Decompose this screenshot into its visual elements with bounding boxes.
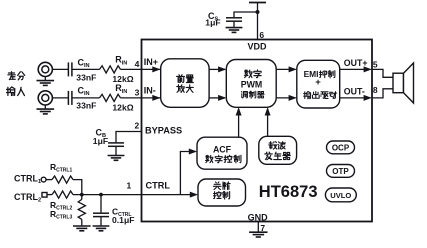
resistor R_IN row 2 [100, 94, 121, 101]
wire CTRL2 to R_CTRL2 [47, 194, 52, 196]
junction node R_CTRL3 [80, 193, 84, 197]
speaker LS1 [393, 63, 414, 103]
svg-text:1μF: 1μF [93, 136, 108, 146]
wire R_CTRL1 down to node [73, 180, 82, 195]
wire C_IN to R_IN row 1 [72, 68, 100, 70]
wire C_IN to R_IN row 2 [72, 97, 100, 99]
ground at pin 7 [249, 232, 267, 237]
svg-text:CTRL1: CTRL1 [14, 173, 41, 185]
svg-text:1: 1 [127, 180, 132, 190]
svg-text:0.1μF: 0.1μF [112, 215, 134, 225]
input jack J1 [38, 62, 52, 80]
wire J1 to C_IN [52, 68, 68, 70]
block 关断控制 shutdown control [198, 179, 246, 206]
block 数字PWM调制器 digital PWM modulator [226, 60, 276, 108]
capacitor C_CTRL [100, 195, 102, 213]
ground at jack J1 [37, 81, 55, 86]
capacitor C_S [226, 18, 242, 21]
svg-text:OTP: OTP [332, 167, 349, 176]
svg-text:BYPASS: BYPASS [145, 126, 182, 136]
svg-text:4: 4 [135, 59, 140, 69]
svg-text:12kΩ: 12kΩ [112, 102, 133, 112]
label 差分输入 differential input [7, 72, 25, 96]
IC block U1 HT6873 outline [142, 40, 373, 222]
wire R_IN to pin 3 and into preamp [121, 97, 161, 99]
wire CTRL1 to R_CTRL1 [46, 179, 52, 181]
block OTP [327, 165, 355, 178]
svg-text:IN+: IN+ [144, 57, 158, 67]
svg-text:2: 2 [135, 120, 140, 130]
svg-text:33nF: 33nF [76, 101, 96, 111]
junction node on VDD wire [256, 10, 260, 14]
wire OUT- to speaker [372, 89, 393, 98]
resistor R_CTRL2 [52, 191, 73, 198]
svg-text:OUT-: OUT- [344, 87, 365, 97]
resistor R_IN row 1 [100, 66, 121, 73]
svg-text:CTRL2: CTRL2 [14, 192, 41, 204]
ground at C_CTRL [93, 226, 110, 231]
block ACF数字控制 ACF digital control [197, 137, 247, 169]
wire J2 to C_IN [52, 97, 68, 99]
svg-text:ACF: ACF [213, 144, 232, 154]
svg-text:33nF: 33nF [76, 72, 96, 82]
block UVLO [325, 188, 356, 202]
wire ACF to PWM [238, 109, 240, 138]
wire PWM to EMI (top) [276, 68, 295, 70]
svg-text:OCP: OCP [332, 143, 350, 152]
svg-text:PWM: PWM [241, 79, 263, 89]
svg-text:+: + [315, 77, 321, 88]
svg-text:HT6873: HT6873 [259, 183, 318, 201]
block 载波发生器 carrier generator [259, 136, 297, 164]
ground at jack J2 [37, 109, 55, 114]
wire CTRL branch to ACF [180, 152, 195, 195]
wire preamp to PWM (bottom) [209, 97, 225, 99]
capacitor C_IN row 2 [68, 91, 72, 105]
resistor R_CTRL3 (to ground) [81, 195, 83, 200]
svg-text:OUT+: OUT+ [344, 58, 368, 68]
wire OUT+ to speaker [372, 69, 393, 77]
block OCP [327, 141, 355, 154]
wire carrier generator to PWM [267, 109, 269, 137]
svg-text:6: 6 [259, 30, 264, 40]
junction node C_CTRL [99, 193, 103, 197]
svg-text:CTRL: CTRL [146, 181, 171, 191]
svg-text:IN-: IN- [144, 86, 156, 96]
svg-text:GND: GND [248, 212, 269, 222]
block 前置放大 preamp [161, 59, 209, 108]
resistor R_CTRL1 [52, 176, 73, 183]
VDD supply rail bar [249, 2, 266, 4]
block EMI抑制+输出驱动 EMI control + output driver [297, 60, 340, 108]
ground at R_CTRL3 [73, 226, 91, 231]
input jack J2 [38, 91, 52, 109]
wire EMI to OUT+ pin 5 [340, 68, 371, 70]
svg-text:1μF: 1μF [205, 18, 220, 28]
ground at C_S [226, 28, 243, 33]
svg-text:8: 8 [373, 85, 378, 95]
ground at C_B [108, 156, 125, 161]
wire EMI to OUT- pin 8 [340, 97, 371, 99]
svg-text:5: 5 [373, 59, 378, 69]
wire CTRL to shutdown control [142, 194, 197, 196]
wire node to pin 1 CTRL [73, 194, 142, 196]
capacitor C_IN row 1 [68, 62, 72, 76]
wire pin 7 GND [257, 222, 259, 233]
wire junction to C_S [234, 12, 258, 18]
wire preamp to PWM (top) [209, 68, 225, 70]
wire R_IN to pin 4 and into preamp [121, 68, 161, 70]
svg-text:VDD: VDD [247, 42, 267, 52]
capacitor C_B [108, 143, 124, 146]
svg-text:3: 3 [135, 88, 140, 98]
svg-text:UVLO: UVLO [330, 191, 351, 200]
wire pin 2 BYPASS to C_B [116, 132, 142, 143]
wire PWM to EMI (bottom) [276, 97, 295, 99]
wire VDD rail to pin 6 [257, 3, 259, 40]
